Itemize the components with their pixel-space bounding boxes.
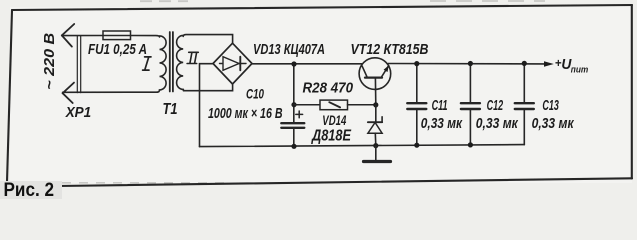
svg-text:C11: C11 <box>432 98 448 114</box>
svg-text:R28 470: R28 470 <box>303 79 354 96</box>
svg-text:Д818Е: Д818Е <box>310 128 351 145</box>
capacitor C12 <box>461 64 480 145</box>
wire secondary top to bridge <box>183 35 232 44</box>
ground <box>364 146 391 162</box>
wire bridge plus to transistor <box>252 63 364 65</box>
junction zener to ground <box>373 143 378 148</box>
fuse FU1 <box>103 31 131 40</box>
svg-text:0,33 мк: 0,33 мк <box>421 115 463 132</box>
svg-text:~ 220 В: ~ 220 В <box>42 33 58 90</box>
svg-text:VT12 КТ815В: VT12 КТ815В <box>351 41 429 58</box>
transformer T1 primary winding I <box>157 36 166 92</box>
wire bridge minus down <box>200 64 214 147</box>
wire secondary bottom to bridge <box>184 84 233 91</box>
label winding I <box>143 57 151 70</box>
wire transistor emitter to output <box>388 63 545 65</box>
svg-text:C12: C12 <box>487 98 504 114</box>
svg-text:C10: C10 <box>246 86 264 102</box>
junction C12 top <box>468 61 473 66</box>
transistor VT12 <box>359 58 391 105</box>
transformer T1 secondary winding II <box>177 35 185 90</box>
wire bottom mains <box>63 91 158 93</box>
svg-text:0,33 мк: 0,33 мк <box>476 115 519 132</box>
connector XP1 <box>62 24 81 103</box>
junction C13 top <box>522 61 527 66</box>
junction base node <box>373 102 378 107</box>
junction C10 bottom <box>291 144 296 149</box>
junction C11 bottom <box>414 143 419 148</box>
svg-text:T1: T1 <box>163 101 178 118</box>
svg-text:1000 мк × 16 В: 1000 мк × 16 В <box>208 105 283 122</box>
svg-text:VD13 КЦ407А: VD13 КЦ407А <box>253 41 325 58</box>
wire bottom rail <box>200 145 525 147</box>
svg-text:VD14: VD14 <box>322 112 346 128</box>
svg-text:0,33 мк: 0,33 мк <box>532 115 575 132</box>
svg-text:FU1 0,25 A: FU1 0,25 A <box>88 41 147 58</box>
resistor R28 <box>294 100 376 110</box>
wire fuse to primary <box>131 36 160 38</box>
wire top mains <box>62 35 103 37</box>
capacitor C13 <box>515 63 534 144</box>
svg-text:Рис. 2: Рис. 2 <box>4 180 55 199</box>
label winding II <box>187 52 198 63</box>
junction bridge plus / C10 <box>291 61 296 66</box>
net +Uпит output arrow <box>544 61 554 67</box>
svg-text:XP1: XP1 <box>65 104 91 121</box>
transformer T1 core <box>169 32 171 92</box>
capacitor C10 <box>281 64 304 146</box>
bridge rectifier VD13 <box>213 43 252 84</box>
capacitor C11 <box>407 64 426 146</box>
junction R28 tap <box>291 102 296 107</box>
caption Рис. 2 <box>0 181 62 199</box>
junction C11 top <box>414 61 419 66</box>
junction C12 bottom <box>468 142 473 147</box>
zener diode VD14 <box>368 105 382 146</box>
svg-text:C13: C13 <box>542 98 559 114</box>
svg-text:пит: пит <box>571 64 589 75</box>
